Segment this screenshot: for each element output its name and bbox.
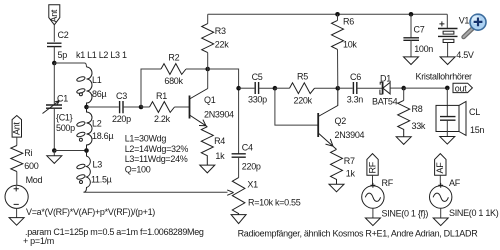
svg-text:C1: C1 xyxy=(57,94,68,104)
svg-text:V=a*(V(RF)*V(AF)+p*V(RF))/(p+1: V=a*(V(RF)*V(AF)+p*V(RF))/(p+1) xyxy=(26,207,155,217)
ground under X1 xyxy=(231,215,246,224)
wire C3 to node xyxy=(123,106,141,108)
wire D1 node to out node xyxy=(404,87,448,89)
ground under V1 xyxy=(440,57,455,65)
svg-text:AF: AF xyxy=(449,178,461,188)
svg-text:C4: C4 xyxy=(242,143,253,153)
node dot D1 right xyxy=(401,86,406,91)
inductor L3 xyxy=(76,151,111,193)
svg-text:15n: 15n xyxy=(470,125,484,135)
battery V1 xyxy=(438,14,474,60)
svg-text:220p: 220p xyxy=(242,162,261,172)
flag out xyxy=(453,83,472,93)
svg-text:C6: C6 xyxy=(350,72,361,82)
node dot C1 bottom xyxy=(52,148,57,153)
wire collector node down xyxy=(207,69,209,89)
svg-text:2.2k: 2.2k xyxy=(154,114,171,124)
transistor Q2 xyxy=(318,88,364,149)
svg-text:L1=30Wdg: L1=30Wdg xyxy=(125,133,167,143)
svg-text:D1: D1 xyxy=(380,74,391,84)
flag AF xyxy=(435,154,446,176)
node dot C5 tap xyxy=(236,86,241,91)
svg-text:220k: 220k xyxy=(294,96,313,106)
svg-text:R5: R5 xyxy=(297,72,308,82)
svg-text:22k: 22k xyxy=(215,40,229,50)
svg-text:R=10k k=0.55: R=10k k=0.55 xyxy=(248,198,301,208)
svg-text:33k: 33k xyxy=(412,121,426,131)
node dot out xyxy=(445,86,450,91)
svg-text:R8: R8 xyxy=(412,104,423,114)
wire Ant to Ri xyxy=(16,137,18,145)
svg-text:L2: L2 xyxy=(92,118,102,128)
svg-text:C2: C2 xyxy=(58,30,69,40)
svg-text:R6: R6 xyxy=(343,16,354,26)
text coil data xyxy=(125,133,189,174)
svg-text:2N3904: 2N3904 xyxy=(204,109,234,119)
resistor R4 xyxy=(201,127,225,165)
svg-text:out: out xyxy=(455,83,467,93)
svg-text:C3: C3 xyxy=(116,91,127,101)
wire C1 to bottom rail xyxy=(53,108,55,150)
potentiometer X1 xyxy=(232,157,300,214)
svg-text:Ant: Ant xyxy=(12,122,22,135)
wire bottom rail to L2 xyxy=(54,150,86,152)
resistor R8 xyxy=(398,88,426,137)
resistor R1 xyxy=(141,91,190,124)
svg-text:Mod: Mod xyxy=(26,175,43,185)
wire L1 node to C3 xyxy=(87,106,119,108)
flag Ant left xyxy=(12,116,22,138)
ground under RF xyxy=(365,208,380,225)
capacitor C3 xyxy=(112,91,131,124)
ground under AF xyxy=(433,208,448,225)
svg-text:100n: 100n xyxy=(414,44,433,54)
ground under Mod xyxy=(9,208,24,225)
capacitor C2 xyxy=(47,30,69,63)
svg-text:R1: R1 xyxy=(156,91,167,101)
svg-text:220p: 220p xyxy=(112,114,131,124)
svg-text:L3: L3 xyxy=(93,160,103,170)
svg-text:2N3904: 2N3904 xyxy=(335,130,365,140)
svg-text:AF: AF xyxy=(435,162,445,174)
svg-text:600: 600 xyxy=(24,161,38,171)
svg-text:L1: L1 xyxy=(92,75,102,85)
ground under R7 xyxy=(329,184,344,192)
capacitor C4 xyxy=(232,143,261,172)
voltage source Mod xyxy=(5,175,43,208)
inductor L1 xyxy=(76,67,106,107)
wire feedback to Q2 base xyxy=(275,88,318,125)
resistor R5 xyxy=(275,72,338,106)
wire collector to C4 column xyxy=(208,69,239,154)
svg-text:5p: 5p xyxy=(58,50,68,60)
resistor R2 xyxy=(161,53,186,87)
diode D1 BAT54 xyxy=(372,74,404,107)
node dot R6 top xyxy=(335,12,340,17)
svg-text:86µ: 86µ xyxy=(92,89,106,99)
resistor R6 xyxy=(332,14,358,88)
wire node to L1 top xyxy=(54,63,86,67)
svg-text:R2: R2 xyxy=(168,53,179,63)
svg-text:Radioempfänger, ähnlich Kosmos: Radioempfänger, ähnlich Kosmos R+E1, And… xyxy=(238,229,479,239)
node dot top xyxy=(52,61,57,66)
magnifier icon xyxy=(464,14,486,37)
svg-text:680k: 680k xyxy=(164,76,183,86)
capacitor C6 xyxy=(338,72,383,105)
ground under C7 xyxy=(404,57,419,65)
svg-text:RF: RF xyxy=(367,161,377,173)
wire R2 to collector node xyxy=(186,68,208,70)
resistor R3 xyxy=(202,14,230,69)
node dot L2 bottom xyxy=(84,148,89,153)
svg-text:RF: RF xyxy=(382,178,394,188)
svg-text:R3: R3 xyxy=(215,26,226,36)
wire top rail xyxy=(208,13,448,15)
voltage source RF xyxy=(362,175,394,208)
svg-text:Q=100: Q=100 xyxy=(125,165,151,175)
capacitor CL earphone xyxy=(436,88,484,137)
svg-text:{C1}: {C1} xyxy=(56,112,73,122)
wire L3 to X1 wiper with arrow xyxy=(84,190,234,195)
inductor L2 xyxy=(76,107,113,151)
svg-text:11.5µ: 11.5µ xyxy=(91,175,112,185)
flag Ant top xyxy=(49,5,60,25)
svg-text:1k: 1k xyxy=(215,151,225,161)
svg-text:C7: C7 xyxy=(414,25,425,35)
svg-text:L2=14Wdg=32%: L2=14Wdg=32% xyxy=(125,144,189,154)
svg-text:10k: 10k xyxy=(343,40,357,50)
svg-text:R7: R7 xyxy=(344,156,355,166)
svg-text:Ant: Ant xyxy=(49,9,59,22)
svg-text:Kristallohrhörer: Kristallohrhörer xyxy=(416,71,473,81)
svg-text:3.3n: 3.3n xyxy=(347,95,364,105)
wire Ri to Mod xyxy=(16,172,18,186)
flag RF xyxy=(367,154,378,176)
svg-text:L3=11Wdg=24%: L3=11Wdg=24% xyxy=(125,154,188,164)
wire Ant to C2 xyxy=(53,25,55,42)
capacitor C5 xyxy=(239,72,275,104)
svg-text:500p: 500p xyxy=(56,123,75,133)
transistor Q1 xyxy=(190,89,235,127)
svg-text:+ p=1/m: + p=1/m xyxy=(23,236,54,246)
svg-text:SINE(0 1 1K): SINE(0 1 1K) xyxy=(449,208,499,218)
capacitor C1 variable xyxy=(43,94,76,134)
svg-text:SINE(0 1 {f}): SINE(0 1 {f}) xyxy=(382,209,429,219)
svg-text:CL: CL xyxy=(469,107,480,117)
svg-text:Ri: Ri xyxy=(24,148,32,158)
svg-text:1k: 1k xyxy=(346,169,356,179)
wire node up to R2 xyxy=(141,69,161,107)
voltage source AF xyxy=(430,175,461,208)
svg-text:Q1: Q1 xyxy=(204,95,216,105)
ground under R8 xyxy=(396,137,411,145)
node dot R5 right xyxy=(336,86,341,91)
svg-text:R4: R4 xyxy=(214,136,225,146)
node dot L1 bottom xyxy=(84,105,89,110)
resistor R7 xyxy=(331,149,356,184)
svg-text:Q2: Q2 xyxy=(335,116,347,126)
wire C2 node to C1 xyxy=(53,63,55,105)
svg-text:330p: 330p xyxy=(248,94,267,104)
svg-text:BAT54: BAT54 xyxy=(372,96,398,106)
node dot C3/R1/R2 xyxy=(139,105,144,110)
svg-text:C5: C5 xyxy=(252,72,263,82)
capacitor C7 xyxy=(403,12,433,57)
svg-text:k1 L1 L2 L3 1: k1 L1 L2 L3 1 xyxy=(76,50,127,60)
svg-text:18.6µ: 18.6µ xyxy=(92,131,113,141)
ground under CL xyxy=(440,137,455,145)
node dot C5 right xyxy=(273,86,278,91)
ground under R4 xyxy=(200,165,215,173)
svg-text:V1: V1 xyxy=(459,15,470,25)
resistor Ri xyxy=(11,146,39,172)
svg-text:4.5V: 4.5V xyxy=(456,50,474,60)
svg-text:X1: X1 xyxy=(247,180,258,190)
ground under C1 xyxy=(47,151,62,164)
node dot Q1 collector xyxy=(205,67,210,72)
